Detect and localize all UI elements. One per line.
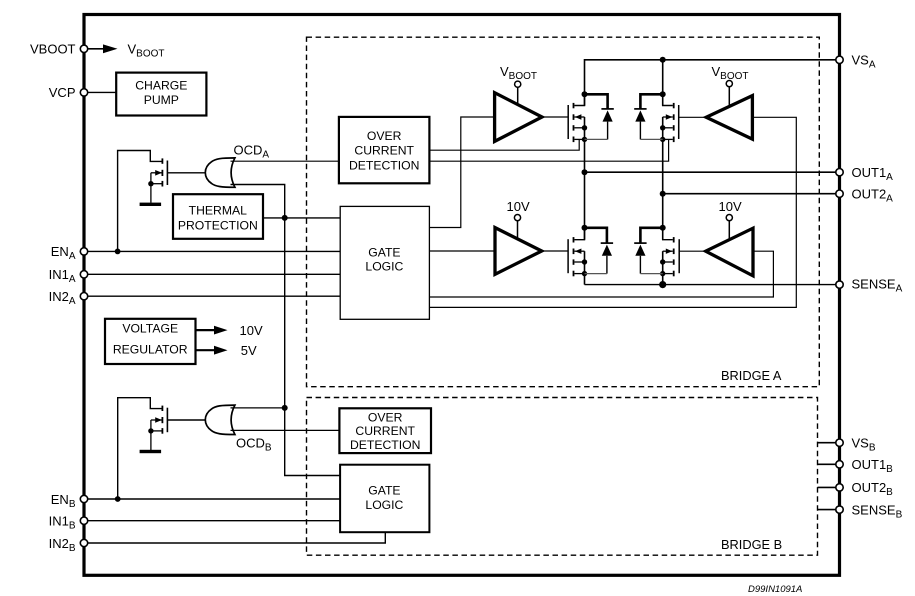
wire OCD B bottom input to over current detection B [231, 429, 340, 431]
svg-text:5V: 5V [241, 343, 257, 358]
buffer A3 [706, 64, 752, 139]
svg-text:VOLTAGE: VOLTAGE [122, 322, 178, 336]
wire OCD A bottom input down to thermal node and gate logic B [231, 185, 341, 476]
BRIDGE B dashed box [307, 398, 818, 556]
svg-text:CURRENT: CURRENT [354, 144, 414, 158]
gate logic A U5 [340, 206, 429, 319]
node SENSE junction [659, 281, 666, 288]
svg-text:LOGIC: LOGIC [365, 498, 403, 512]
or-gate OCD B [205, 405, 272, 453]
pin OUT1_B [836, 457, 893, 475]
node OUT2 junction [660, 191, 666, 197]
wire gate logic A to driver A1 input [430, 117, 495, 228]
diode D3 [585, 228, 614, 274]
wire IN2_A [88, 295, 341, 297]
wire M2 source sense to over current detection A [430, 139, 669, 161]
pin OUT2_B [836, 480, 893, 498]
diode D1 [585, 94, 614, 139]
svg-text:VBOOT: VBOOT [30, 42, 76, 57]
wire gate logic A to driver A2 input [430, 250, 495, 252]
svg-text:PROTECTION: PROTECTION [178, 218, 258, 232]
voltage regulator U3 [105, 319, 196, 364]
wire thermal protection to gate logic A [263, 217, 340, 219]
pin VS_B [836, 436, 876, 454]
svg-text:BRIDGE B: BRIDGE B [721, 537, 782, 552]
svg-text:DETECTION: DETECTION [350, 438, 420, 452]
pin SENSE_B [836, 502, 903, 520]
wire IN1_B [88, 520, 341, 522]
pin EN_A [51, 244, 88, 262]
transistor Q1 drain wire from EN_A [118, 151, 162, 252]
pin OUT1_A [836, 165, 893, 183]
svg-text:10V: 10V [719, 199, 742, 214]
pin IN2_B [49, 536, 88, 554]
svg-text:OVER: OVER [368, 411, 403, 425]
svg-text:10V: 10V [240, 323, 263, 338]
wire buffer A3 to M2 gate [679, 116, 707, 118]
transistor M2 high-side right [660, 91, 679, 193]
pin IN1_B [49, 514, 88, 532]
svg-text:REGULATOR: REGULATOR [113, 342, 188, 356]
charge pump U1 [116, 73, 206, 116]
wire gate logic A to driver A3 input [430, 117, 797, 307]
or-gate OCD A [205, 143, 269, 188]
ground Q2 [140, 450, 162, 453]
diode D4 [634, 228, 663, 274]
wire M1 source sense to over current detection A [430, 139, 579, 150]
node OCD B input junction [282, 405, 288, 411]
svg-text:THERMAL: THERMAL [189, 204, 247, 218]
wire OUT2_B stub [818, 486, 837, 488]
wire M2 drain from VS rail [662, 60, 664, 106]
buffer A4 [706, 199, 753, 276]
wire IN2_B [88, 532, 386, 543]
transistor Q2 [148, 406, 167, 450]
wire VBOOT arrow [88, 42, 165, 60]
wire OCD A top input to over current detection A [231, 160, 340, 162]
wire 5V output arrow [196, 343, 258, 358]
over current detection B U6 [339, 408, 431, 453]
svg-text:PUMP: PUMP [144, 93, 179, 107]
buffer A1 [495, 64, 542, 141]
wire SENSE rail [585, 284, 837, 286]
node OUT1 junction [582, 169, 588, 175]
node VS rail junction [660, 57, 666, 63]
pin VS_A [836, 53, 876, 71]
pin IN1_A [49, 267, 88, 285]
wire Q1 gate to OR gate [167, 172, 206, 174]
transistor M4 low-side right [660, 194, 680, 285]
pin EN_B [51, 492, 88, 510]
pin SENSE_A [836, 277, 903, 295]
svg-text:DETECTION: DETECTION [349, 158, 419, 172]
wire EN_A [88, 250, 341, 252]
wire IN1_A [88, 273, 341, 275]
pin VBOOT [30, 42, 88, 57]
wire OUT2 [663, 193, 837, 195]
wire Q2 gate to OR gate B [167, 419, 206, 421]
transistor Q2 drain wire from EN_B [118, 398, 162, 499]
wire VS rail [585, 60, 837, 106]
pin VCP [49, 85, 88, 100]
wire VCP to charge pump [88, 91, 118, 93]
over current detection A U4 [339, 117, 430, 183]
wire VS_B stub [818, 442, 837, 444]
svg-text:BRIDGE A: BRIDGE A [721, 368, 782, 383]
transistor M1 high-side left [568, 91, 587, 172]
svg-text:GATE: GATE [368, 245, 400, 259]
pin IN2_A [49, 289, 88, 307]
ground Q1 [140, 203, 162, 206]
transistor M3 low-side left [568, 172, 587, 284]
wire gate logic A to driver A4 input [430, 251, 774, 297]
chip outline [84, 15, 840, 576]
node EN_B junction [115, 496, 121, 502]
gate logic B U7 [340, 465, 429, 533]
svg-text:VCP: VCP [49, 85, 76, 100]
wire OCD B top input [231, 407, 285, 409]
wire buffer A2 to M3 gate [542, 250, 568, 252]
buffer A2 [495, 199, 542, 274]
svg-text:CHARGE: CHARGE [135, 79, 187, 93]
wire EN_B [88, 498, 341, 500]
wire OUT1 [585, 171, 837, 173]
svg-text:CURRENT: CURRENT [355, 424, 415, 438]
svg-text:10V: 10V [507, 199, 530, 214]
node EN_A junction [115, 249, 121, 255]
wire buffer A1 to M1 gate [542, 116, 568, 118]
node thermal junction [282, 215, 288, 221]
thermal protection U2 [173, 194, 263, 239]
svg-text:GATE: GATE [368, 484, 400, 498]
svg-text:LOGIC: LOGIC [365, 259, 403, 273]
transistor Q1 [148, 158, 167, 202]
pin OUT2_A [836, 187, 893, 205]
wire 10V output arrow [196, 323, 263, 338]
wire buffer A4 to M4 gate [679, 250, 706, 252]
diode D2 [634, 94, 663, 139]
wire SENSE_B stub [818, 509, 837, 511]
BRIDGE A dashed box [307, 37, 820, 387]
wire OUT1_B stub [818, 463, 837, 465]
svg-text:OVER: OVER [367, 129, 402, 143]
svg-text:D99IN1091A: D99IN1091A [748, 584, 802, 595]
